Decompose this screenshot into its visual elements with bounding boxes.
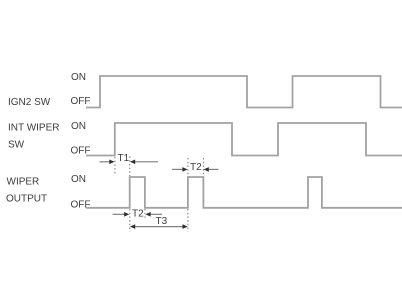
svg-text:OFF: OFF	[71, 96, 91, 107]
svg-text:SW: SW	[8, 139, 25, 150]
dimension T3 double arrow	[130, 224, 188, 229]
dotted leader at second wiper pulse falling edge upper	[202, 158, 204, 176]
dimension T2 lower left arrow	[113, 212, 130, 217]
svg-text:T3: T3	[156, 216, 168, 227]
dotted leader at first wiper pulse rising edge upper	[129, 157, 131, 177]
label INT WIPER SW	[8, 123, 59, 151]
dimension T1 left arrow	[100, 160, 115, 165]
dotted leader at second wiper pulse rising edge lower	[187, 209, 189, 232]
dotted leader at first wiper pulse falling edge lower	[144, 209, 146, 219]
label WIPER OUTPUT	[6, 177, 47, 205]
dotted leader at INT WIPER rising edge	[114, 157, 116, 175]
svg-text:ON: ON	[71, 72, 86, 83]
dimension T1 right arrow	[130, 160, 158, 165]
waveform WIPER OUTPUT	[86, 177, 402, 208]
svg-text:OUTPUT: OUTPUT	[6, 193, 47, 204]
dotted leader at second wiper pulse rising edge upper	[187, 158, 189, 176]
svg-text:T1: T1	[118, 153, 130, 164]
dimension T2 upper right arrow	[204, 167, 219, 172]
svg-text:T2: T2	[190, 162, 202, 173]
waveform IGN2 SW	[86, 76, 402, 108]
svg-text:ON: ON	[71, 174, 86, 185]
svg-text:INT WIPER: INT WIPER	[8, 123, 59, 134]
svg-text:T2: T2	[132, 208, 144, 219]
svg-text:ON: ON	[71, 121, 86, 132]
svg-text:IGN2 SW: IGN2 SW	[8, 97, 51, 108]
waveform INT WIPER SW	[86, 123, 402, 156]
svg-text:WIPER: WIPER	[7, 177, 40, 188]
dimension T2 upper left arrow	[172, 167, 188, 172]
svg-text:OFF: OFF	[71, 200, 91, 211]
dimension T2 lower right arrow	[145, 212, 162, 217]
dotted leader at first wiper pulse rising edge lower	[129, 209, 131, 232]
